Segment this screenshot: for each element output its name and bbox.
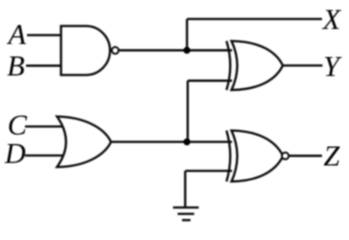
- ground symbol bar 3: [182, 219, 191, 221]
- wire XNOR output to Z: [289, 155, 322, 157]
- XOR gate U3 extra input arc: [227, 41, 231, 90]
- wire jog to XOR bottom input: [188, 80, 232, 82]
- svg-text:D: D: [4, 138, 26, 170]
- svg-text:X: X: [322, 4, 342, 36]
- NAND gate U1 body: [61, 26, 110, 75]
- XOR gate U3 body: [232, 41, 283, 90]
- ground symbol bar 1: [173, 206, 199, 208]
- wire OR output to XNOR top input: [111, 141, 232, 143]
- wire node to X (vertical): [186, 19, 188, 50]
- svg-text:C: C: [8, 110, 28, 142]
- XNOR gate U4 extra input arc: [227, 131, 231, 182]
- svg-text:Z: Z: [324, 141, 341, 173]
- wire ground vertical: [184, 171, 186, 208]
- wire input A: [27, 34, 61, 36]
- svg-text:A: A: [6, 19, 26, 51]
- wire node up to jog (vertical): [187, 81, 189, 142]
- XNOR gate U4 body: [232, 131, 284, 182]
- junction node dot (NAND output): [183, 47, 190, 54]
- NAND gate U1 output bubble: [112, 47, 119, 54]
- svg-text:Y: Y: [323, 51, 342, 83]
- wire input B: [26, 65, 61, 67]
- svg-text:B: B: [7, 51, 25, 83]
- wire XOR output to Y: [281, 64, 323, 66]
- ground symbol bar 2: [178, 213, 195, 215]
- wire input D: [25, 154, 63, 156]
- wire ground to XNOR bottom input: [185, 170, 232, 172]
- XNOR gate U4 output bubble: [282, 153, 289, 160]
- OR gate U2 body: [57, 117, 111, 168]
- wire input C: [25, 125, 63, 127]
- wire NAND output to XOR top input: [119, 49, 232, 51]
- wire to X (horizontal): [187, 18, 322, 20]
- junction node dot (OR output): [183, 138, 190, 145]
